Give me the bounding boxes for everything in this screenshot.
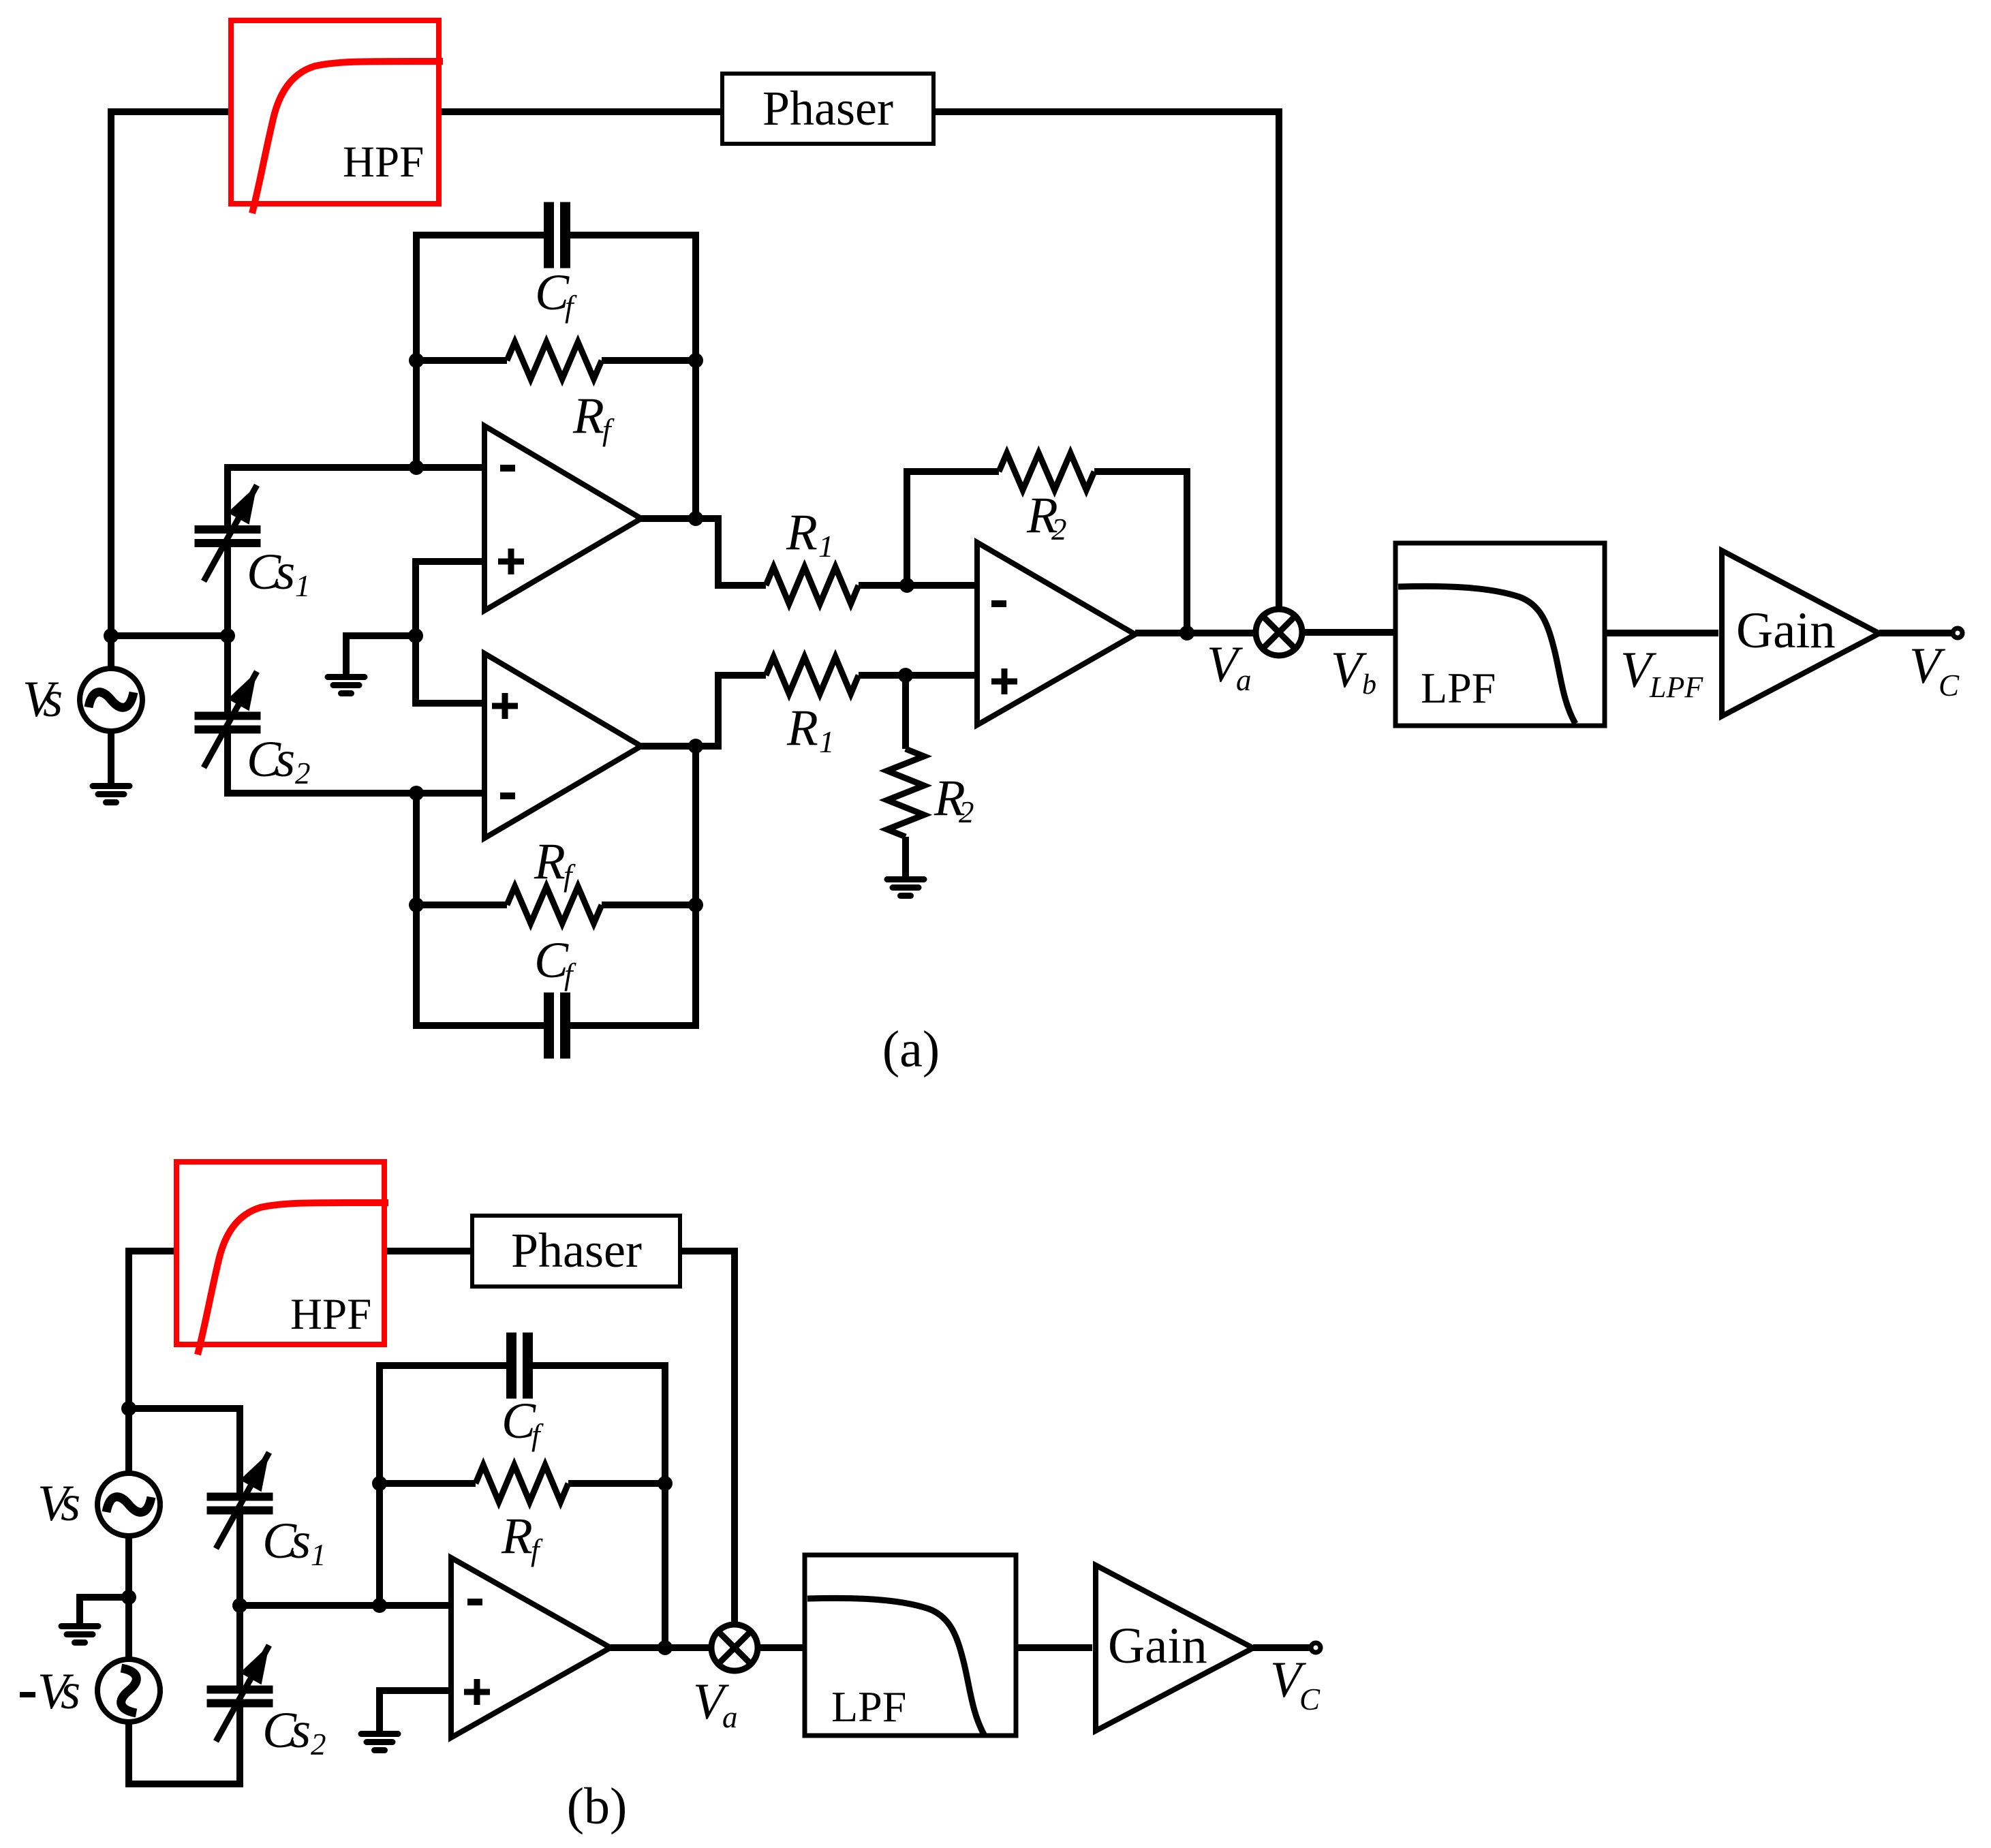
multiplier (a) — [1256, 609, 1302, 656]
U3 minus sign — [991, 600, 1006, 607]
svg-text:LPF: LPF — [831, 1682, 906, 1731]
U2 minus sign — [500, 792, 515, 799]
wire: HPF to Phaser (a) — [439, 108, 722, 115]
node: U3 noninverting junction (a) — [898, 668, 913, 683]
capacitor Cs1 (variable) (b) — [207, 1493, 273, 1501]
op-amp U4 (b) — [451, 1558, 611, 1738]
op-amp U2 (a) — [484, 653, 641, 838]
node: U1 output junction (a) — [688, 511, 703, 526]
wire: Vs node to Cs column (a) — [111, 632, 228, 639]
svg-text:1: 1 — [311, 1538, 326, 1572]
U4 minus sign — [467, 1599, 482, 1605]
wire: U2 feedback left column (a) — [416, 793, 544, 1026]
wire: R2 to ground (a bottom) — [902, 675, 909, 749]
wire: ground branch (b) — [80, 1597, 129, 1625]
wire: feedback top with Cf (b) — [529, 1366, 665, 1648]
op-amp U3 (a) — [977, 542, 1135, 725]
svg-text:s: s — [291, 1513, 311, 1569]
capacitor Cf (a top) — [544, 202, 554, 268]
wire: noninverting to ground (b) — [380, 1691, 451, 1733]
svg-text:2: 2 — [295, 756, 311, 790]
LPF response curve (b) — [807, 1598, 985, 1736]
U1 minus sign — [500, 465, 515, 472]
svg-text:C: C — [1939, 668, 1960, 703]
node: Rf left junction (a top) — [409, 353, 424, 368]
wire: Phaser to multiplier vertical (a) — [933, 112, 1279, 613]
resistor R2 (a top) — [999, 453, 1094, 490]
wire: Phaser to multiplier vertical (b) — [680, 1251, 735, 1628]
LPF response curve (a) — [1398, 586, 1575, 724]
node: U2 inverting input junction (a) — [409, 786, 424, 801]
wire: Vs to ground (a) — [108, 731, 114, 785]
node: noninverting ground junction (a) — [408, 628, 423, 643]
svg-text:R: R — [501, 1508, 533, 1565]
svg-text:Gain: Gain — [1736, 602, 1836, 659]
wire: Cs1 column and to U1 inverting input (a) — [228, 467, 484, 527]
svg-text:a: a — [1236, 663, 1252, 697]
svg-text:1: 1 — [819, 725, 835, 759]
svg-text:Phaser: Phaser — [511, 1223, 642, 1278]
wire: Gain output (b) — [1253, 1644, 1311, 1651]
U1 plus sign — [498, 559, 524, 565]
capacitor Cs2 (variable) (b) — [207, 1686, 273, 1694]
svg-text:2: 2 — [311, 1727, 326, 1761]
svg-text:1: 1 — [295, 569, 311, 603]
svg-text:HPF: HPF — [290, 1290, 371, 1339]
wire: feedback left column (b) — [380, 1366, 510, 1605]
wire: U2 output to R1 (a) — [641, 675, 766, 746]
wire: multiplier to LPF (a) — [1302, 629, 1395, 636]
wire: multiplier to LPF (b) — [758, 1644, 805, 1651]
svg-text:R: R — [534, 833, 566, 890]
source Vs (a) — [80, 668, 142, 731]
wire: inverting input (b) — [240, 1602, 451, 1609]
svg-text:s: s — [61, 1475, 80, 1532]
capacitor Cs1 (variable) (a) — [195, 525, 261, 534]
svg-text:s: s — [43, 671, 63, 728]
svg-text:s: s — [275, 731, 295, 788]
wire: top branch to Cs1 (b) — [129, 1408, 240, 1494]
node: Vs-top junction (a) — [104, 628, 119, 643]
wire: LPF to Gain (b) — [1016, 1644, 1092, 1651]
wire: Cs2 upper column (b) — [236, 1605, 243, 1687]
wire: R2 feedback loop (a top) — [907, 472, 999, 585]
svg-text:2: 2 — [959, 795, 974, 829]
wire: U1 feedback top with Cf (a) — [570, 235, 696, 519]
node: U1 inverting input junction (a) — [409, 460, 424, 475]
node: mid junction (b) — [121, 1590, 136, 1605]
Phaser block (a) — [722, 74, 933, 144]
wire: Gain output (a) — [1879, 630, 1953, 636]
node: Rf right junction (a top) — [688, 353, 703, 368]
wire: U1 feedback left column (a) — [416, 235, 544, 467]
wire: ground branch to noninverting inputs (a) — [346, 636, 416, 676]
wire: U3 output to multiplier (a) — [1135, 630, 1256, 636]
svg-text:s: s — [275, 544, 295, 600]
node: Rf left junction (a bottom) — [409, 897, 424, 912]
ground at op-amp noninverting inputs (a) — [325, 674, 368, 680]
svg-text:LPF: LPF — [1421, 664, 1496, 712]
resistor R1 (a bottom) — [766, 657, 859, 694]
svg-text:Gain: Gain — [1108, 1618, 1207, 1674]
multiplier (b) — [711, 1624, 758, 1671]
resistor Rf (b) — [380, 1480, 476, 1487]
wire: U1 output to R1 (a) — [641, 519, 766, 585]
ground at source midpoint (b) — [59, 1623, 102, 1629]
output terminal VC (a) — [1953, 628, 1962, 638]
output terminal VC (b) — [1311, 1643, 1321, 1652]
resistor Rf (a bottom) — [416, 902, 507, 908]
node: U4 output junction (b) — [658, 1640, 673, 1655]
source Vs (b) — [97, 1473, 160, 1536]
Gain amplifier (a) — [1722, 551, 1879, 716]
label -Vs (b) — [20, 1692, 35, 1697]
wire: LPF to Gain (a) — [1605, 630, 1718, 636]
svg-text:a: a — [722, 1700, 738, 1734]
svg-text:(b): (b) — [567, 1778, 628, 1835]
wire: top loop left horizontal (b) — [129, 1251, 176, 1476]
svg-text:1: 1 — [818, 529, 834, 564]
wire: U2 feedback bottom with Cf (a) — [570, 746, 696, 1026]
svg-text:C: C — [1299, 1682, 1321, 1716]
resistor R1 (a top) — [766, 567, 859, 604]
Gain amplifier (b) — [1096, 1565, 1253, 1731]
svg-text:R: R — [786, 504, 818, 561]
LPF block (a) — [1395, 543, 1605, 726]
capacitor Cf (a bottom) — [544, 993, 554, 1059]
wire: HPF to Phaser (b) — [384, 1248, 472, 1254]
wire: Vs to mid junction (b) — [125, 1536, 132, 1659]
wire: Cs2 column and to U2 inverting input (a) — [224, 636, 231, 713]
svg-text:R: R — [786, 700, 818, 756]
svg-text:HPF: HPF — [343, 138, 424, 187]
node: Rf right junction (b) — [658, 1476, 673, 1491]
U4 plus sign — [464, 1689, 490, 1695]
HPF response curve (a) — [252, 61, 443, 213]
HPF block (b) red box — [176, 1162, 384, 1344]
svg-text:Phaser: Phaser — [762, 81, 893, 136]
wire: U1 noninverting input (a) — [416, 561, 484, 703]
node: U3 output junction (a) — [1179, 626, 1194, 641]
svg-text:(a): (a) — [882, 1021, 940, 1078]
wire: top loop left horizontal (a) — [111, 112, 231, 671]
node: U2 output junction (a) — [688, 739, 703, 754]
HPF response curve (b) — [198, 1203, 388, 1355]
ground under R2 (a) — [884, 876, 927, 882]
node: Cs column junction (a) — [220, 628, 235, 643]
svg-text:s: s — [291, 1702, 311, 1759]
node: inverting feedback junction (b) — [372, 1598, 387, 1613]
Phaser block (b) — [472, 1216, 680, 1287]
node: source-column top junction (b) — [121, 1401, 136, 1416]
HPF block (a) red box — [231, 20, 439, 204]
resistor R2 (a bottom) — [887, 749, 924, 837]
svg-text:R: R — [572, 388, 604, 444]
U3 plus sign — [991, 679, 1017, 685]
ground under Vs (a) — [90, 783, 133, 789]
node: Cs junction (b) — [232, 1598, 247, 1613]
wire: U4 output to multiplier (b) — [611, 1644, 711, 1651]
svg-text:2: 2 — [1051, 512, 1067, 546]
svg-text:b: b — [1362, 669, 1376, 700]
node: Rf right junction (a bottom) — [688, 897, 703, 912]
wire: -Vs to bottom loop (b) — [129, 1706, 240, 1784]
ground at noninverting input (b) — [358, 1731, 401, 1737]
svg-text:s: s — [61, 1663, 80, 1720]
op-amp U1 (a) — [484, 426, 641, 611]
svg-text:LPF: LPF — [1649, 671, 1703, 704]
resistor Rf (a top) — [416, 357, 507, 364]
source -Vs (b) — [97, 1659, 160, 1722]
LPF block (b) — [805, 1555, 1016, 1736]
node: U3 inverting junction (a) — [899, 578, 914, 593]
capacitor Cs2 (variable) (a) — [195, 712, 261, 720]
node: Rf left junction (b) — [372, 1476, 387, 1491]
U2 plus sign — [492, 703, 518, 709]
capacitor Cf (b) — [506, 1333, 516, 1399]
wire: Cs1 to inverting node (b) — [236, 1513, 243, 1605]
